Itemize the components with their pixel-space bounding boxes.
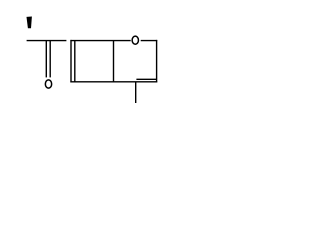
cyclobutene ring top bond (70, 40, 113, 42)
bottom bond of both rings (horizontal) (70, 81, 157, 83)
carbonyl C=O double bond, left line (45, 40, 47, 77)
bond: methyl C to carbonyl C (horizontal) (27, 40, 67, 42)
pyran ring top bond, C to O segment (114, 40, 131, 42)
carbonyl C=O double bond, right line (49, 40, 51, 77)
pyran ring right bond (vertical) (156, 40, 158, 83)
methyl substituent bond (vertical, below ring) (135, 82, 137, 103)
cyclobutene ring left double bond, inner line (74, 40, 76, 82)
carbonyl oxygen atom label O (45, 80, 51, 88)
cyclobutene ring left double bond, outer line (70, 40, 72, 83)
pyran ring C=C double bond, inner line (136, 78, 156, 80)
fused ring shared bond (vertical) (113, 40, 115, 82)
pyran ring top bond, O to C segment (141, 40, 158, 42)
pyran ring oxygen atom label O (132, 36, 138, 44)
methyl wedge bond (bold stub, top left) (27, 17, 32, 29)
